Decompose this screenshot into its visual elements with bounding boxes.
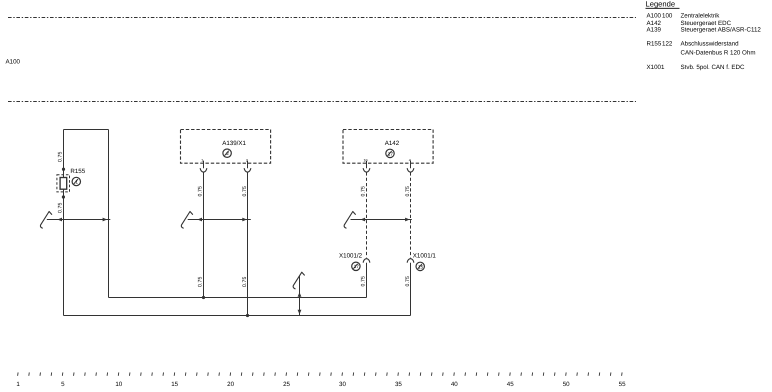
svg-text:X1001: X1001 xyxy=(647,64,665,71)
legend block xyxy=(646,0,762,71)
connector socket below A139 pin 2 xyxy=(244,169,251,173)
ruler scale xyxy=(16,372,626,387)
svg-text:35: 35 xyxy=(395,381,402,388)
twisted-pair span line 3 xyxy=(351,219,412,221)
svg-text:0.75: 0.75 xyxy=(361,186,367,197)
svg-text:50: 50 xyxy=(563,381,570,388)
svg-text:Stvb. 5pol. CAN f. EDC: Stvb. 5pol. CAN f. EDC xyxy=(681,64,745,71)
svg-text:1: 1 xyxy=(75,179,78,184)
dashed rule middle (system boundary) xyxy=(8,101,636,103)
svg-text:A142: A142 xyxy=(385,140,400,147)
twisted-pair span line 4 (vertical) xyxy=(299,276,301,316)
svg-text:2: 2 xyxy=(246,159,248,163)
svg-text:0.75: 0.75 xyxy=(405,186,411,197)
arrowhead left 2 xyxy=(197,218,202,222)
svg-text:1: 1 xyxy=(16,381,20,388)
svg-text:X1001/2: X1001/2 xyxy=(339,253,363,260)
svg-text:15: 15 xyxy=(171,381,178,388)
connector X1001/1 plug symbol xyxy=(407,259,414,263)
svg-text:30: 30 xyxy=(339,381,346,388)
svg-text:2: 2 xyxy=(226,151,229,156)
svg-text:A100: A100 xyxy=(647,12,662,19)
connector socket below A139 pin 1 xyxy=(200,169,207,173)
svg-text:4: 4 xyxy=(409,159,411,163)
resistor R155 (terminating resistor, dashed enclosure) xyxy=(57,175,70,192)
svg-text:R155: R155 xyxy=(70,168,85,175)
pin stub A142 left xyxy=(366,161,368,169)
svg-text:Steuergeraet ABS/ASR-C112: Steuergeraet ABS/ASR-C112 xyxy=(681,27,762,34)
wire X1001/2 down to inner bus corner xyxy=(366,263,368,298)
wire X1001/1 down to outer bus corner xyxy=(410,263,412,316)
arrowhead left 1 xyxy=(57,218,62,222)
connector socket below A142 left xyxy=(363,169,370,173)
svg-text:Legende: Legende xyxy=(646,0,676,8)
svg-text:A100: A100 xyxy=(6,58,21,65)
control unit A142 (EDC) dashed box xyxy=(343,130,433,164)
inner bottom bus wire (CAN low) xyxy=(109,297,367,299)
svg-text:X1001/1: X1001/1 xyxy=(413,253,437,260)
svg-text:40: 40 xyxy=(451,381,458,388)
svg-text:17: 17 xyxy=(354,264,360,269)
svg-text:0.75: 0.75 xyxy=(58,202,64,213)
wire left vertical (R155 branch) xyxy=(63,130,65,178)
pin 1 stub A139 xyxy=(203,161,205,169)
sheet reference R155 xyxy=(72,177,80,185)
svg-text:15: 15 xyxy=(418,264,424,269)
arrowhead down 4 xyxy=(298,310,302,315)
svg-text:CAN-Datenbus R 120 Ohm: CAN-Datenbus R 120 Ohm xyxy=(681,50,756,57)
arrowhead right 1 xyxy=(103,218,108,222)
control unit A139/X1 (ABS/ASR) dashed box xyxy=(181,130,271,164)
svg-text:0.75: 0.75 xyxy=(198,276,204,287)
svg-text:R155: R155 xyxy=(647,41,662,48)
svg-text:122: 122 xyxy=(662,41,673,48)
svg-text:17: 17 xyxy=(388,151,394,156)
sheet reference A142 xyxy=(386,149,394,157)
wire right vertical (to inner bus) xyxy=(108,130,110,298)
svg-text:A139/X1: A139/X1 xyxy=(222,140,246,147)
svg-text:Zentralelektrik: Zentralelektrik xyxy=(681,12,721,19)
dashed rule top (system boundary) xyxy=(8,17,636,19)
svg-text:0.75: 0.75 xyxy=(242,186,248,197)
arrowhead right 3 xyxy=(405,218,410,222)
node (terminal dot) R155 top xyxy=(62,168,65,171)
svg-text:0.75: 0.75 xyxy=(242,276,248,287)
twisted-pair span line 1 xyxy=(47,219,111,221)
wire A139 pin2 to outer bus xyxy=(247,172,249,315)
twisted-pair span line 2 xyxy=(188,219,251,221)
svg-text:0.75: 0.75 xyxy=(58,151,64,162)
svg-text:10: 10 xyxy=(364,159,368,163)
twisted-pair hook symbol 2 xyxy=(181,212,192,229)
pin stub A142 right xyxy=(410,161,412,169)
pin 2 stub A139 xyxy=(247,161,249,169)
svg-text:Abschlusswiderstand: Abschlusswiderstand xyxy=(681,41,740,48)
wire A139 pin1 to inner bus xyxy=(203,172,205,297)
svg-text:100: 100 xyxy=(662,12,673,19)
svg-text:0.75: 0.75 xyxy=(361,276,367,287)
svg-text:20: 20 xyxy=(227,381,234,388)
junction dot A139 pin2 / outer bus xyxy=(246,314,249,317)
dashed wire A142 left to X1001/2 xyxy=(366,172,368,257)
svg-text:5: 5 xyxy=(61,381,65,388)
svg-text:A139: A139 xyxy=(647,27,662,34)
outer bottom bus wire (CAN high) xyxy=(64,315,411,317)
arrowhead left 3 xyxy=(361,218,366,222)
svg-text:0.75: 0.75 xyxy=(198,186,204,197)
svg-text:1: 1 xyxy=(201,159,203,163)
connector X1001/2 plug symbol xyxy=(363,259,370,263)
svg-text:10: 10 xyxy=(115,381,122,388)
svg-text:45: 45 xyxy=(507,381,514,388)
node (terminal dot) R155 bottom xyxy=(62,195,65,198)
sheet reference A139 xyxy=(223,149,231,157)
arrowhead up 4 xyxy=(298,292,302,297)
sheet reference X1001/1 xyxy=(416,262,424,270)
arrowhead right 2 xyxy=(242,218,247,222)
svg-text:55: 55 xyxy=(619,381,626,388)
sheet reference X1001/2 xyxy=(352,262,360,270)
connector socket below A142 right xyxy=(407,169,414,173)
junction dot A139 pin1 / inner bus xyxy=(202,296,205,299)
dashed wire A142 right to X1001/1 xyxy=(410,172,412,257)
twisted-pair hook symbol 4 xyxy=(293,272,304,289)
svg-text:0.75: 0.75 xyxy=(405,276,411,287)
svg-text:25: 25 xyxy=(283,381,290,388)
twisted-pair hook symbol 3 xyxy=(344,212,355,229)
twisted-pair hook symbol 1 xyxy=(40,212,51,229)
wire top horizontal A100 loop xyxy=(64,129,109,131)
